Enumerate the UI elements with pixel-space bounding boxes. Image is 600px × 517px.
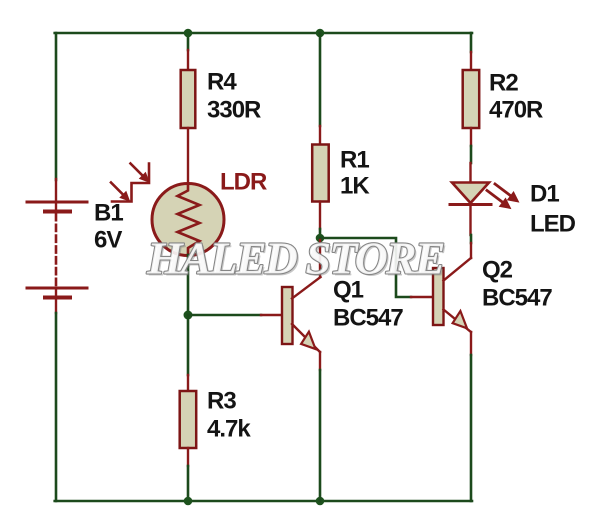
- wire: R1 bottom to junction: [319, 229, 322, 238]
- wire: R2 to LED: [470, 146, 473, 163]
- svg-text:6V: 6V: [94, 227, 122, 254]
- svg-text:330R: 330R: [207, 97, 261, 124]
- LDR light arrow 1: [131, 164, 144, 177]
- svg-text:LDR: LDR: [220, 169, 267, 196]
- svg-text:B1: B1: [94, 200, 123, 227]
- watermark HALED STORE: [146, 233, 446, 286]
- wire: LED cathode to Q2 collector: [470, 235, 473, 243]
- svg-text:R1: R1: [340, 147, 369, 174]
- svg-text:BC547: BC547: [482, 285, 552, 312]
- wire: left rail lower (battery -): [55, 313, 58, 501]
- svg-text:HALED STORE: HALED STORE: [146, 233, 444, 284]
- transistor Q2: [411, 258, 471, 355]
- svg-text:BC547: BC547: [333, 305, 403, 332]
- node: R1-bottom junction: [316, 234, 325, 243]
- diode D1 LED: [450, 163, 518, 235]
- LDR light step lines: [112, 164, 149, 202]
- LED emission arrow 2: [495, 184, 511, 196]
- node: top-middle junction: [316, 29, 325, 38]
- photoresistor LDR: [111, 164, 224, 256]
- wire: R1 branch top: [319, 33, 322, 126]
- svg-text:LED: LED: [530, 211, 576, 238]
- battery B1: [27, 179, 87, 313]
- svg-text:R2: R2: [489, 70, 518, 97]
- wire: left rail upper (battery +): [55, 33, 58, 180]
- LDR light arrow 2: [111, 183, 124, 196]
- pin: Q2 collector stub: [470, 243, 472, 258]
- svg-text:D1: D1: [530, 181, 559, 208]
- svg-text:4.7k: 4.7k: [207, 416, 251, 443]
- wire: R3 bottom to ground rail: [187, 466, 190, 501]
- svg-text:R4: R4: [207, 69, 237, 96]
- wire: R3 branch: [187, 315, 190, 375]
- node: top-left junction: [184, 29, 193, 38]
- wire: right rail top: [470, 33, 473, 52]
- node: ground junction below Q1: [316, 497, 325, 506]
- svg-text:R3: R3: [207, 388, 236, 415]
- wire: top power rail: [55, 32, 472, 35]
- wire: LDR branch top: [187, 33, 190, 50]
- node: Q1 base junction: [184, 311, 193, 320]
- resistor R4: [181, 50, 196, 184]
- resistor R2: [463, 52, 480, 146]
- svg-text:1K: 1K: [340, 173, 370, 200]
- svg-text:470R: 470R: [489, 97, 543, 124]
- transistor Q1: [261, 240, 321, 370]
- wire: Q2 emitter to ground: [470, 355, 473, 501]
- wire: bottom ground rail: [55, 500, 472, 503]
- wire: LDR bottom to base junction: [187, 255, 190, 315]
- LED emission arrow 1: [487, 191, 503, 203]
- svg-text:Q2: Q2: [482, 257, 513, 284]
- wire: base junction to Q1: [188, 314, 261, 317]
- resistor R1: [312, 126, 329, 229]
- wire: Q1 emitter to ground: [319, 370, 322, 501]
- wire: junction to Q2 base (right/down/right): [320, 238, 411, 297]
- resistor R3: [180, 375, 197, 466]
- node: ground junction below R3: [184, 497, 193, 506]
